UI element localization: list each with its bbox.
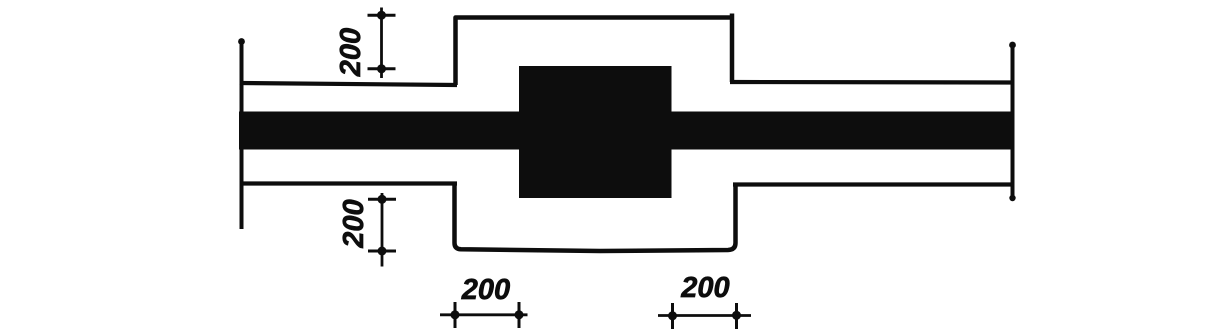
- svg-text:200: 200: [680, 272, 729, 304]
- bottom-left dimension tick lower: [368, 247, 396, 256]
- top-left vertical dimension line: [380, 8, 383, 79]
- bottom-left horizontal tick right: [515, 302, 524, 328]
- svg-text:200: 200: [335, 28, 367, 77]
- bottom-left horizontal tick left: [451, 302, 460, 328]
- bottom-left dimension tick upper: [368, 195, 396, 204]
- svg-text:200: 200: [338, 199, 370, 248]
- slab top surface line left: [240, 83, 458, 85]
- lower thickening box outline: [455, 184, 736, 251]
- bottom-right horizontal tick right: [732, 303, 741, 329]
- bottom horizontal dimension line left (200): [440, 313, 528, 316]
- bottom horizontal dimension line right (200): [658, 314, 751, 317]
- bottom-right horizontal tick left: [668, 303, 677, 329]
- slab top surface line right: [730, 80, 1014, 85]
- svg-text:200: 200: [461, 274, 510, 306]
- slab bottom surface line left: [240, 181, 458, 185]
- upper thickening box outline: [456, 14, 733, 86]
- solid center block: [519, 66, 672, 198]
- left end break line: [238, 38, 245, 229]
- slab core black band: [239, 112, 1014, 150]
- bottom-left vertical dimension line: [381, 193, 384, 267]
- top-left dimension tick upper: [368, 11, 396, 20]
- top-left dimension tick lower: [368, 64, 396, 73]
- slab bottom surface line right: [733, 182, 1014, 186]
- right end break line: [1009, 42, 1016, 202]
